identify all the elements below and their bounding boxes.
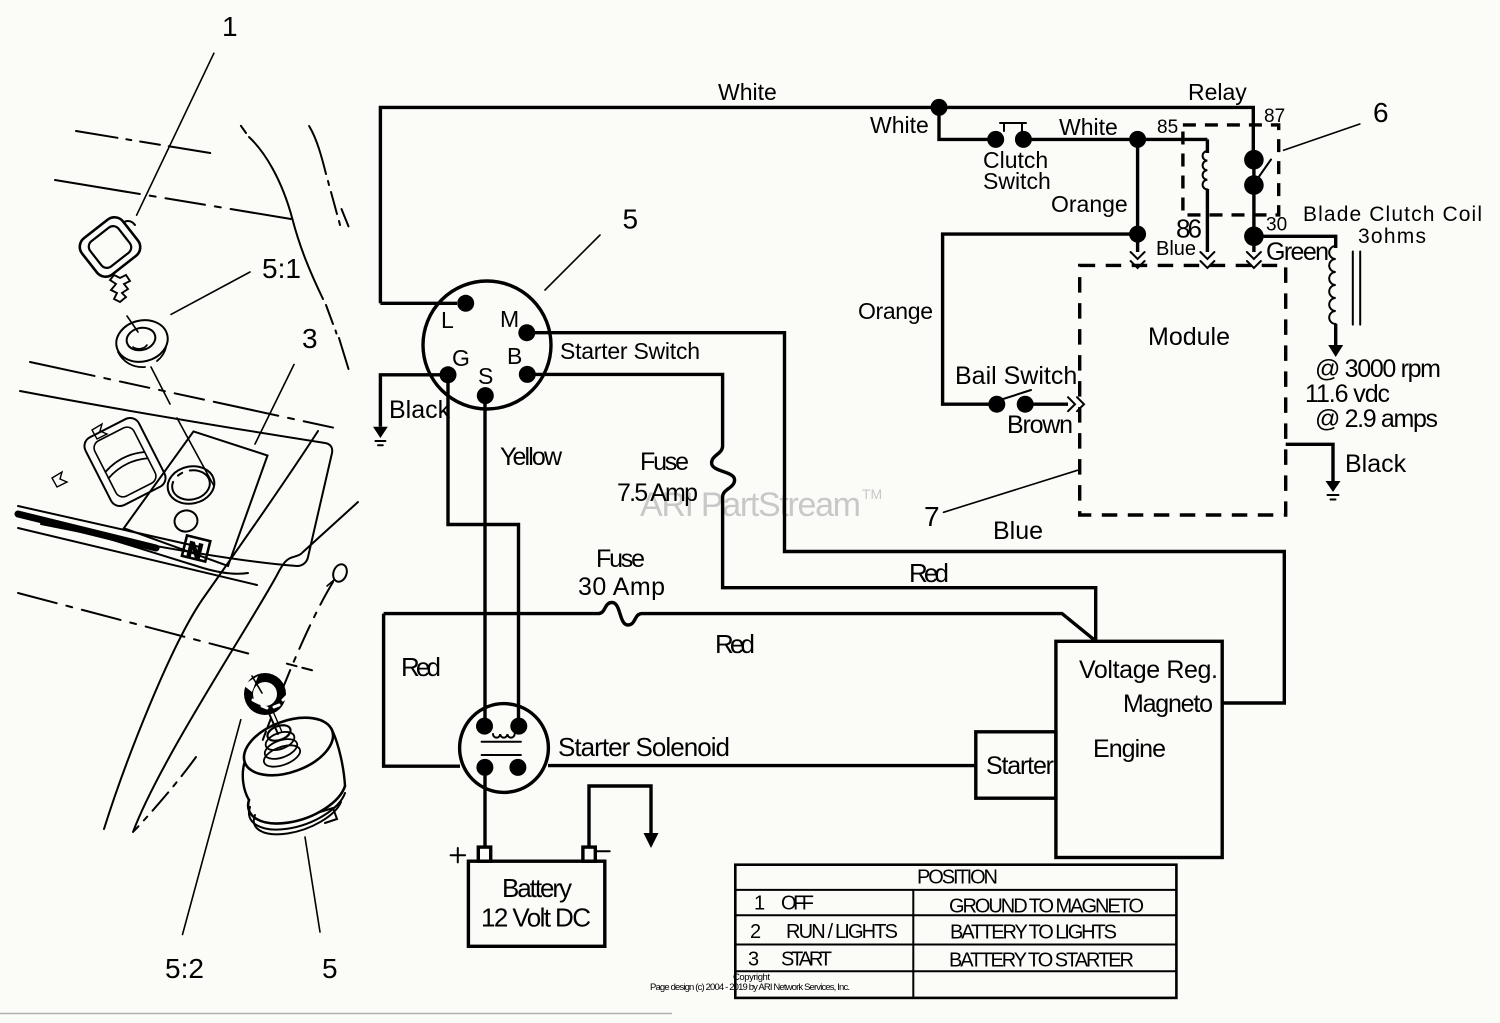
svg-text:3ohms: 3ohms — [1358, 225, 1426, 248]
svg-text:Voltage Reg.: Voltage Reg. — [1079, 656, 1218, 684]
svg-text:Orange: Orange — [1051, 191, 1128, 217]
svg-text:B: B — [507, 343, 522, 369]
svg-text:M: M — [500, 306, 519, 332]
svg-text:Battery: Battery — [502, 873, 572, 903]
svg-text:Starter: Starter — [986, 752, 1054, 780]
svg-text:Yellow: Yellow — [500, 443, 563, 471]
svg-text:Switch: Switch — [983, 168, 1051, 194]
svg-text:Fuse: Fuse — [596, 545, 645, 573]
svg-text:BATTERY TO LIGHTS: BATTERY TO LIGHTS — [950, 922, 1117, 944]
svg-text:White: White — [870, 112, 929, 138]
svg-text:White: White — [718, 79, 777, 105]
svg-text:OFF: OFF — [781, 893, 814, 915]
svg-text:Starter Switch: Starter Switch — [560, 338, 700, 364]
svg-text:@ 3000 rpm: @ 3000 rpm — [1315, 355, 1441, 383]
svg-text:Black: Black — [1345, 450, 1407, 478]
svg-text:L: L — [441, 307, 454, 333]
svg-text:Orange: Orange — [858, 298, 933, 324]
svg-text:3: 3 — [302, 323, 318, 354]
svg-text:11.6 vdc: 11.6 vdc — [1305, 380, 1390, 408]
svg-text:5:1: 5:1 — [262, 253, 301, 284]
svg-text:Module: Module — [1148, 323, 1230, 351]
svg-text:Fuse: Fuse — [640, 448, 689, 476]
svg-text:Red: Red — [909, 558, 949, 588]
svg-text:2: 2 — [750, 921, 761, 943]
svg-text:Bail Switch: Bail Switch — [955, 362, 1077, 390]
svg-text:Green: Green — [1266, 238, 1329, 266]
svg-text:Brown: Brown — [1007, 411, 1073, 439]
svg-text:30: 30 — [1266, 215, 1287, 236]
svg-text:Blade Clutch Coil: Blade Clutch Coil — [1303, 203, 1482, 226]
svg-text:Blue: Blue — [993, 517, 1043, 545]
svg-text:Engine: Engine — [1093, 735, 1166, 763]
svg-text:G: G — [452, 345, 470, 371]
svg-text:Red: Red — [715, 629, 755, 659]
svg-text:Page design (c) 2004 - 2019 by: Page design (c) 2004 - 2019 by ARI Netwo… — [650, 982, 850, 993]
svg-text:6: 6 — [1373, 97, 1389, 128]
svg-text:White: White — [1059, 114, 1118, 140]
svg-text:START: START — [781, 949, 832, 971]
svg-text:7: 7 — [924, 501, 940, 532]
svg-text:GROUND TO MAGNETO: GROUND TO MAGNETO — [949, 896, 1144, 918]
svg-text:7.5 Amp: 7.5 Amp — [617, 479, 698, 507]
svg-text:Red: Red — [401, 652, 441, 682]
svg-text:3: 3 — [748, 949, 759, 971]
svg-text:@ 2.9 amps: @ 2.9 amps — [1315, 405, 1438, 433]
svg-text:12 Volt DC: 12 Volt DC — [481, 903, 591, 933]
svg-text:S: S — [478, 363, 493, 389]
svg-text:BATTERY TO STARTER: BATTERY TO STARTER — [949, 950, 1134, 972]
svg-text:Magneto: Magneto — [1123, 690, 1213, 718]
svg-text:1: 1 — [222, 11, 238, 42]
svg-text:87: 87 — [1264, 106, 1285, 127]
svg-text:POSITION: POSITION — [917, 867, 998, 889]
svg-text:Starter Solenoid: Starter Solenoid — [558, 732, 730, 762]
svg-text:TM: TM — [862, 486, 882, 502]
svg-text:5: 5 — [322, 953, 338, 984]
svg-text:5: 5 — [623, 204, 639, 235]
svg-text:RUN / LIGHTS: RUN / LIGHTS — [786, 921, 898, 943]
svg-text:30 Amp: 30 Amp — [578, 573, 665, 601]
svg-text:1: 1 — [754, 893, 765, 915]
svg-text:Relay: Relay — [1188, 79, 1247, 105]
svg-text:85: 85 — [1157, 117, 1178, 138]
svg-text:Black: Black — [389, 396, 451, 424]
svg-text:5:2: 5:2 — [165, 953, 204, 984]
svg-text:Blue: Blue — [1156, 238, 1196, 260]
